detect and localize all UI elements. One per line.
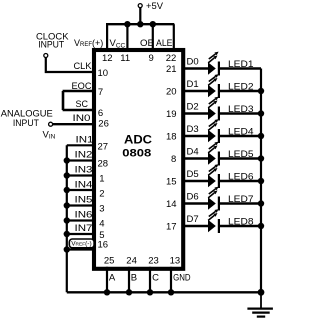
svg-text:LED2: LED2 xyxy=(228,81,254,92)
junction bus D7 xyxy=(258,223,264,229)
svg-text:15: 15 xyxy=(166,177,177,188)
pin label VREF(-) box xyxy=(69,239,94,248)
svg-text:INPUT: INPUT xyxy=(13,118,39,129)
svg-text:1: 1 xyxy=(99,173,104,184)
wire IN3 stub xyxy=(67,174,96,176)
svg-text:D6: D6 xyxy=(187,192,199,203)
svg-text:SC: SC xyxy=(76,99,89,110)
junction IN4 xyxy=(64,187,70,193)
wire D5 to LED6 xyxy=(182,180,261,182)
wire IN7 stub xyxy=(67,233,96,235)
svg-text:IN1: IN1 xyxy=(76,134,94,145)
wire IN2 stub xyxy=(67,159,96,161)
svg-text:22: 22 xyxy=(166,53,177,64)
junction VREF(-) xyxy=(64,246,70,252)
svg-text:INPUT: INPUT xyxy=(38,40,64,51)
LED7 xyxy=(208,187,219,211)
wire IN6 stub xyxy=(67,219,96,221)
svg-text:D7: D7 xyxy=(187,214,199,225)
svg-text:LED3: LED3 xyxy=(228,104,254,115)
svg-text:20: 20 xyxy=(166,87,177,98)
svg-text:8: 8 xyxy=(171,154,176,165)
junction bus D3 xyxy=(258,133,264,139)
wire pin GND stub xyxy=(170,267,172,293)
svg-text:IN6: IN6 xyxy=(75,210,93,221)
svg-text:LED1: LED1 xyxy=(228,59,254,70)
junction bus D5 xyxy=(258,178,264,184)
junction bus D2 xyxy=(258,110,264,116)
analogue input terminal xyxy=(49,122,53,126)
svg-text:IN0: IN0 xyxy=(73,113,91,124)
wire IN1 stub xyxy=(67,144,96,146)
wire pin B stub xyxy=(128,267,130,293)
svg-text:4: 4 xyxy=(99,218,104,229)
wire analogue input to IN0 xyxy=(53,123,96,125)
junction IN3 xyxy=(64,172,70,178)
svg-text:23: 23 xyxy=(148,255,159,266)
wire pin C stub xyxy=(149,267,151,293)
svg-text:LED5: LED5 xyxy=(228,149,254,160)
LED6 xyxy=(208,164,219,188)
svg-text:D0: D0 xyxy=(187,57,199,68)
svg-text:IN2: IN2 xyxy=(75,150,93,161)
svg-text:OE: OE xyxy=(140,38,154,49)
svg-text:LED7: LED7 xyxy=(228,194,254,205)
svg-text:ADC: ADC xyxy=(124,133,152,147)
wire pin9 stub xyxy=(152,24,154,50)
wire D2 to LED3 xyxy=(182,112,261,114)
svg-text:27: 27 xyxy=(98,142,109,153)
svg-text:LED8: LED8 xyxy=(228,216,254,227)
junction IN7 xyxy=(64,231,70,237)
wire EOC pin stub xyxy=(63,90,96,92)
svg-text:21: 21 xyxy=(166,64,177,75)
svg-text:D2: D2 xyxy=(187,102,199,113)
wire pin22 stub xyxy=(173,24,175,50)
LED3 xyxy=(208,97,219,121)
svg-text:B: B xyxy=(131,273,137,284)
svg-text:D4: D4 xyxy=(187,147,199,158)
svg-text:19: 19 xyxy=(166,109,177,120)
ground symbol xyxy=(247,292,273,316)
wire pin A stub xyxy=(106,267,108,293)
svg-text:D1: D1 xyxy=(187,79,199,90)
wire clock input to CLK xyxy=(46,58,96,72)
junction ground/bus xyxy=(258,289,265,296)
wire EOC-SC feedback xyxy=(62,91,65,110)
wire D6 to LED7 xyxy=(182,202,261,204)
LED8 xyxy=(208,209,219,233)
svg-text:18: 18 xyxy=(166,132,177,143)
wire pin12 stub xyxy=(106,24,108,50)
+5V supply terminal xyxy=(138,4,142,8)
LED2 xyxy=(208,74,219,98)
wire D7 to LED8 xyxy=(182,225,261,227)
svg-text:LED4: LED4 xyxy=(228,126,254,137)
svg-text:11: 11 xyxy=(120,53,130,64)
svg-text:CLK: CLK xyxy=(74,61,93,72)
svg-text:12: 12 xyxy=(102,53,113,64)
wire IN5 stub xyxy=(67,204,96,206)
svg-text:A: A xyxy=(109,273,116,284)
wire pin11 stub xyxy=(126,24,128,50)
wire VREF(-) stub xyxy=(67,248,96,250)
svg-text:+5V: +5V xyxy=(146,1,164,12)
wire D0 to LED1 xyxy=(182,67,261,69)
junction rail/pin9 xyxy=(150,21,156,27)
svg-text:25: 25 xyxy=(104,255,115,266)
svg-text:16: 16 xyxy=(98,240,109,251)
wire SC pin stub xyxy=(63,109,96,111)
junction GND xyxy=(168,289,174,295)
svg-text:IN5: IN5 xyxy=(75,195,93,206)
svg-text:9: 9 xyxy=(149,53,154,64)
junction C xyxy=(147,289,153,295)
svg-text:7: 7 xyxy=(98,87,103,98)
wire D4 to LED5 xyxy=(182,157,261,159)
junction bus D6 xyxy=(258,200,264,206)
junction IN2 xyxy=(64,157,70,163)
LED5 xyxy=(208,142,219,166)
wire IN bus vertical xyxy=(66,145,68,292)
junction A xyxy=(104,289,110,295)
wire D1 to LED2 xyxy=(182,90,261,92)
svg-text:GND: GND xyxy=(173,273,191,284)
svg-text:24: 24 xyxy=(126,255,137,266)
svg-text:14: 14 xyxy=(166,199,177,210)
svg-text:ALE: ALE xyxy=(156,38,173,49)
svg-text:2: 2 xyxy=(99,188,104,199)
svg-text:LED6: LED6 xyxy=(228,171,254,182)
wire +5V feed xyxy=(139,8,141,24)
wire LED cathode bus xyxy=(260,69,262,293)
svg-text:IN4: IN4 xyxy=(75,180,93,191)
svg-text:28: 28 xyxy=(98,158,109,169)
wire ground rail xyxy=(67,291,261,293)
junction rail/pin11 xyxy=(124,21,130,27)
junction rail/+5V xyxy=(137,21,143,27)
junction IN6 xyxy=(64,217,70,223)
svg-text:10: 10 xyxy=(98,68,109,79)
svg-text:26: 26 xyxy=(98,118,109,129)
clock input terminal xyxy=(44,54,48,58)
svg-text:3: 3 xyxy=(99,203,104,214)
junction bus D4 xyxy=(258,155,264,161)
svg-text:IN3: IN3 xyxy=(75,165,93,176)
junction bus D1 xyxy=(258,88,264,94)
LED1 xyxy=(208,52,219,76)
junction IN5 xyxy=(64,202,70,208)
wire +5V rail xyxy=(106,23,174,25)
svg-text:VREF(-): VREF(-) xyxy=(71,241,91,248)
svg-text:0808: 0808 xyxy=(122,148,151,160)
svg-text:D3: D3 xyxy=(187,124,199,135)
svg-text:EOC: EOC xyxy=(72,81,92,92)
svg-text:D5: D5 xyxy=(187,169,199,180)
svg-text:IN7: IN7 xyxy=(75,223,93,234)
wire D3 to LED4 xyxy=(182,135,261,137)
junction B xyxy=(126,289,132,295)
LED4 xyxy=(208,119,219,143)
svg-text:13: 13 xyxy=(170,255,181,266)
svg-text:C: C xyxy=(152,273,159,284)
IC U1 ADC0808 body xyxy=(94,50,183,269)
wire IN4 stub xyxy=(67,189,96,191)
svg-text:17: 17 xyxy=(166,222,177,233)
